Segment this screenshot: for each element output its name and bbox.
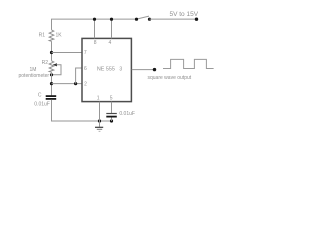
svg-text:2: 2 xyxy=(84,82,87,88)
switch S1 xyxy=(135,16,151,21)
svg-text:5: 5 xyxy=(110,95,113,101)
svg-text:4: 4 xyxy=(109,40,112,46)
ground xyxy=(95,121,103,131)
IC U1 NE 555 xyxy=(82,38,131,101)
wire C bottom lead xyxy=(52,100,112,121)
capacitor C xyxy=(46,96,57,99)
wire pin 4 to rail xyxy=(111,19,113,38)
node threshold junction xyxy=(50,82,53,85)
svg-text:square wave output: square wave output xyxy=(148,75,192,81)
svg-text:R2: R2 xyxy=(42,60,49,66)
wire to pin 2 xyxy=(52,83,83,85)
resistor R1 xyxy=(49,30,54,41)
node ground junction pin1 xyxy=(98,119,101,122)
svg-text:6: 6 xyxy=(84,66,87,72)
node wiper junction xyxy=(50,73,53,76)
svg-text:0.01uF: 0.01uF xyxy=(119,111,135,117)
node R1/R2 junction xyxy=(50,51,53,54)
wire pin 1 to ground rail xyxy=(99,102,101,121)
wire R1 bottom lead xyxy=(51,41,53,61)
node cap2 junction xyxy=(110,119,113,122)
wire pin 5 lead xyxy=(111,102,113,113)
wire C2 bottom lead xyxy=(111,118,113,122)
svg-text:1K: 1K xyxy=(56,33,63,39)
square wave symbol xyxy=(163,59,214,68)
potentiometer R2 xyxy=(49,61,54,72)
node pin8 rail junction xyxy=(93,18,96,21)
node output terminal xyxy=(153,68,156,71)
svg-text:R1: R1 xyxy=(39,33,46,39)
wire pin 8 to rail xyxy=(94,19,96,38)
node pin6 branch junction xyxy=(74,82,77,85)
svg-text:3: 3 xyxy=(119,67,122,73)
svg-text:0.01uF: 0.01uF xyxy=(34,101,50,107)
wire to pin 6 xyxy=(76,68,82,84)
svg-text:1: 1 xyxy=(97,95,100,101)
wiper arrow of R2 xyxy=(52,63,62,75)
svg-text:potentiometer: potentiometer xyxy=(19,73,50,79)
node pin4 rail junction xyxy=(110,18,113,21)
wire pin 3 output xyxy=(132,69,155,71)
wire Vcc rail left segment xyxy=(52,19,137,30)
capacitor C2 0.01uF xyxy=(106,114,117,117)
node Vcc terminal xyxy=(195,18,198,21)
wire Vcc rail right segment xyxy=(150,18,197,20)
svg-text:8: 8 xyxy=(94,40,97,46)
svg-text:C: C xyxy=(38,93,42,99)
svg-text:NE 555: NE 555 xyxy=(97,66,115,72)
svg-text:5V to 15V: 5V to 15V xyxy=(170,11,199,18)
svg-text:7: 7 xyxy=(84,50,87,56)
wire R2 bottom to capacitor C xyxy=(51,72,53,96)
wire to pin 7 xyxy=(52,52,83,54)
